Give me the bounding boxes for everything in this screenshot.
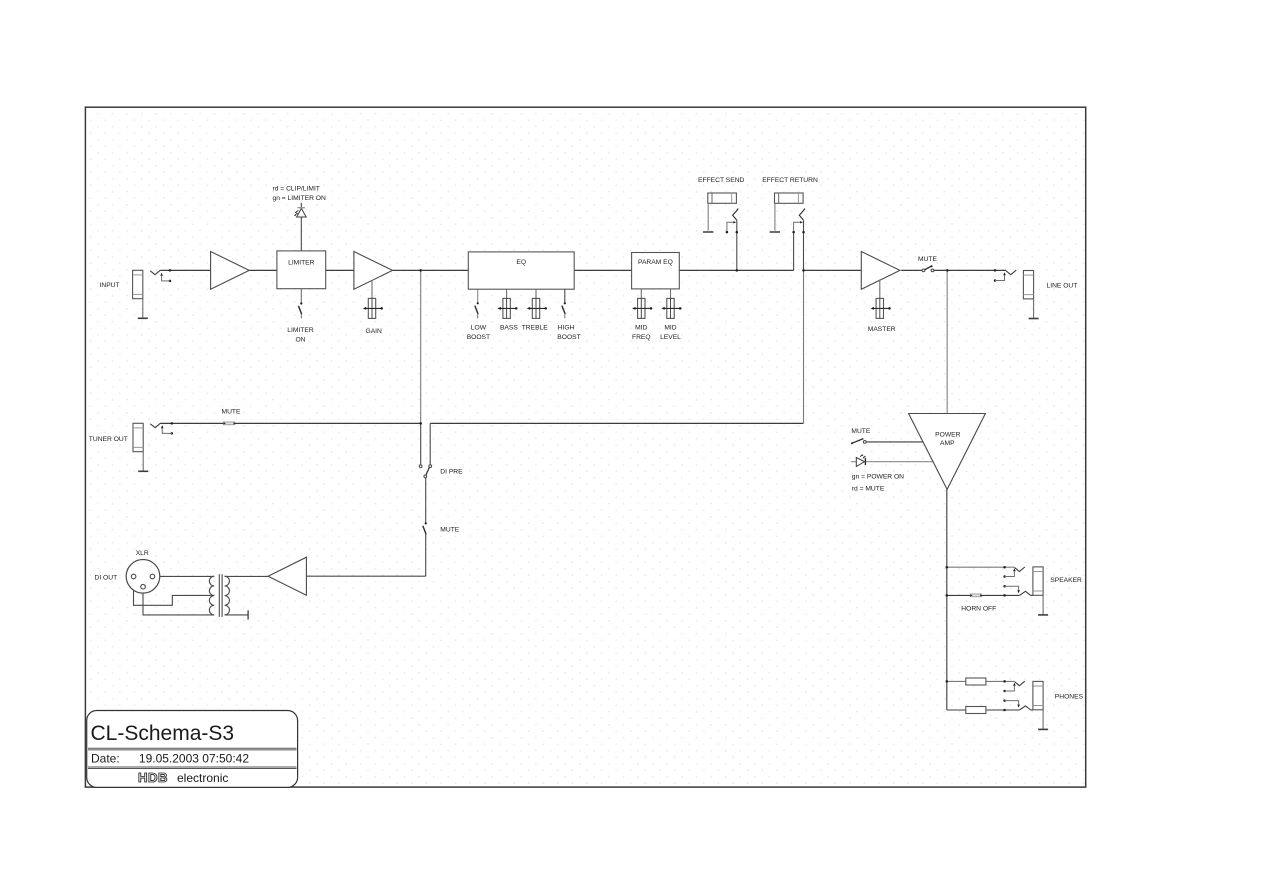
svg-text:LEVEL: LEVEL [660,334,681,341]
svg-text:INPUT: INPUT [100,282,120,289]
svg-text:BASS: BASS [500,324,518,331]
svg-text:PARAM EQ: PARAM EQ [638,259,673,266]
svg-text:CL-Schema-S3: CL-Schema-S3 [91,722,235,745]
svg-text:MUTE: MUTE [851,428,870,435]
svg-text:rd = CLIP/LIMIT: rd = CLIP/LIMIT [273,186,320,193]
svg-text:LIMITER: LIMITER [288,260,315,267]
svg-text:EQ: EQ [516,259,526,266]
svg-text:MUTE: MUTE [440,527,459,534]
svg-text:PHONES: PHONES [1055,693,1084,700]
svg-text:XLR: XLR [136,550,149,557]
svg-text:SPEAKER: SPEAKER [1050,577,1082,584]
svg-text:LINE OUT: LINE OUT [1047,282,1078,289]
svg-text:DI OUT: DI OUT [95,574,118,581]
svg-text:19.05.2003 07:50:42: 19.05.2003 07:50:42 [139,752,249,766]
svg-text:MASTER: MASTER [868,326,896,333]
svg-text:MUTE: MUTE [222,409,241,416]
svg-text:TREBLE: TREBLE [522,324,549,331]
svg-text:HDB: HDB [138,770,168,785]
svg-text:DI PRE: DI PRE [440,468,463,475]
svg-text:TUNER OUT: TUNER OUT [89,436,128,443]
svg-text:FREQ: FREQ [632,334,651,341]
svg-text:electronic: electronic [177,771,228,785]
svg-text:rd = MUTE: rd = MUTE [852,486,885,493]
svg-text:MUTE: MUTE [918,256,937,263]
svg-text:BOOST: BOOST [557,334,580,341]
svg-text:GAIN: GAIN [366,328,383,335]
svg-text:ON: ON [295,336,305,343]
svg-text:LIMITER: LIMITER [287,327,314,334]
svg-text:LOW: LOW [471,324,487,331]
svg-text:Date:: Date: [91,752,120,766]
svg-text:EFFECT SEND: EFFECT SEND [698,177,744,184]
svg-text:MID: MID [664,324,676,331]
svg-text:gn = LIMITER ON: gn = LIMITER ON [273,195,327,202]
svg-text:BOOST: BOOST [467,334,490,341]
svg-text:gn = POWER ON: gn = POWER ON [852,474,904,481]
svg-text:EFFECT RETURN: EFFECT RETURN [762,177,818,184]
svg-text:MID: MID [635,324,647,331]
svg-text:POWER: POWER [935,432,960,439]
svg-text:HIGH: HIGH [558,324,575,331]
svg-text:AMP: AMP [940,440,955,447]
svg-text:HORN OFF: HORN OFF [961,605,996,612]
